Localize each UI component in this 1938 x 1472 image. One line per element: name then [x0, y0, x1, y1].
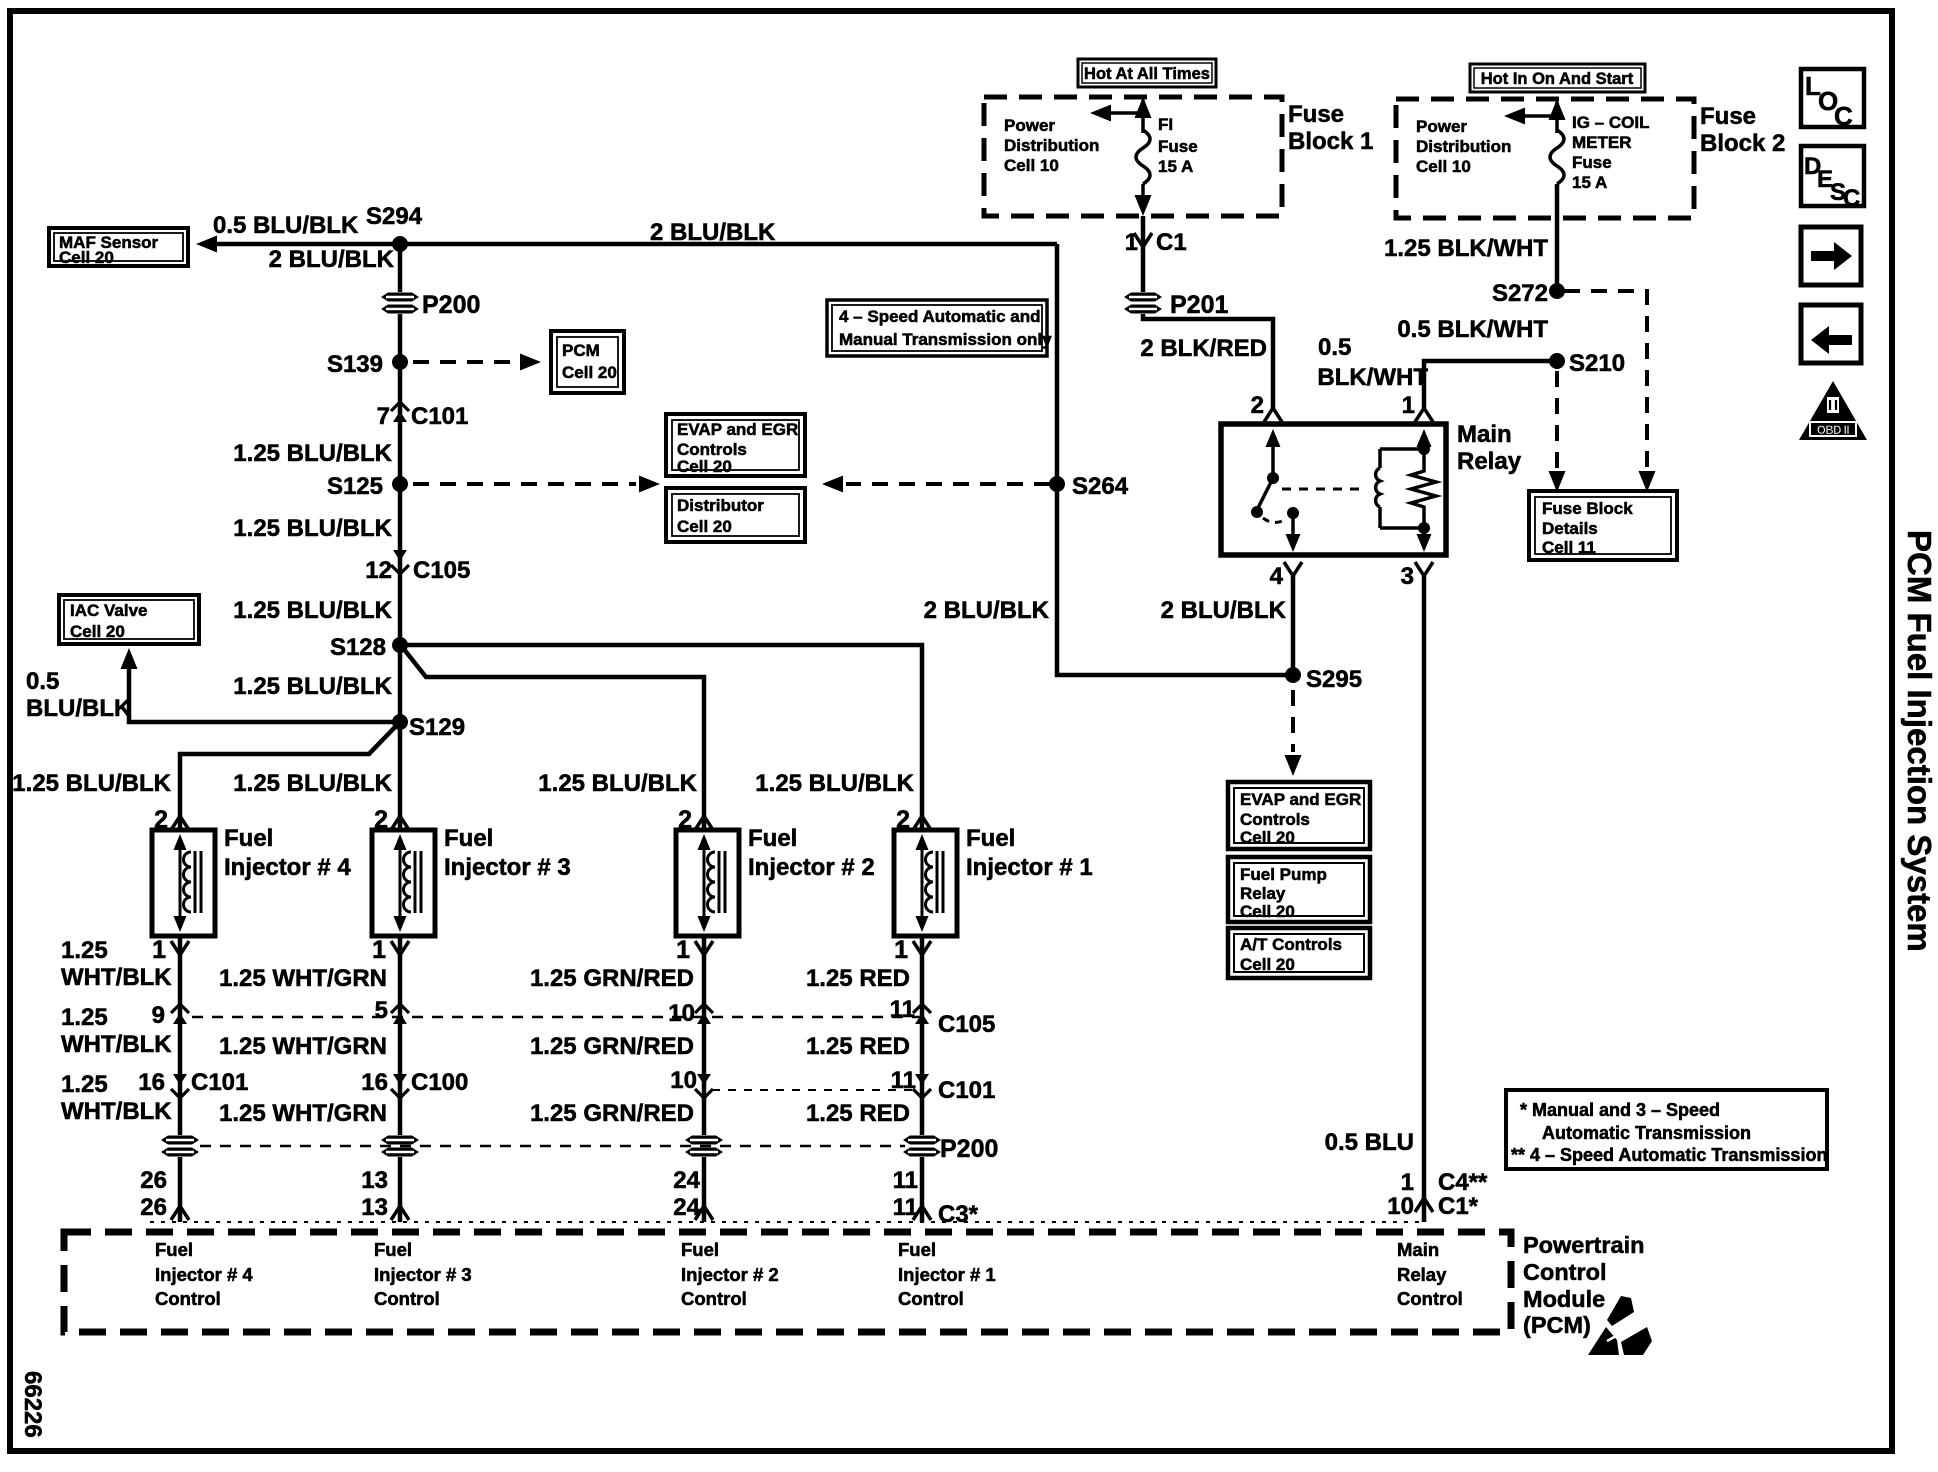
- svg-text:FI: FI: [1158, 115, 1173, 134]
- svg-text:0.5: 0.5: [1318, 334, 1351, 361]
- fuse block 2 name: [1700, 103, 1785, 157]
- form number 66226: [19, 1371, 46, 1438]
- fuse block 2 branch arrow to power distribution: [1504, 108, 1557, 125]
- svg-text:C4**: C4**: [1438, 1169, 1488, 1196]
- svg-text:1.25 BLU/BLK: 1.25 BLU/BLK: [233, 770, 392, 797]
- wire label 1.25 WHT/BLK row B: [61, 1004, 172, 1058]
- wire label 1.25 WHT/BLK row C: [61, 1071, 172, 1125]
- svg-text:1: 1: [676, 936, 690, 964]
- wire label 1.25 BLK/WHT: [1384, 235, 1548, 262]
- svg-text:Fuel: Fuel: [155, 1239, 193, 1260]
- svg-text:Fuel Pump: Fuel Pump: [1240, 865, 1327, 884]
- svg-text:1.25 BLU/BLK: 1.25 BLU/BLK: [233, 673, 392, 700]
- svg-text:Control: Control: [1397, 1288, 1463, 1309]
- svg-text:0.5: 0.5: [26, 668, 59, 695]
- wire S128 branch to fuel injector 2: [403, 648, 704, 830]
- fuel injector #3 pin 1: [372, 936, 409, 1022]
- svg-text:EVAP and EGR: EVAP and EGR: [677, 420, 798, 439]
- svg-text:Block 2: Block 2: [1700, 130, 1785, 157]
- svg-text:METER: METER: [1572, 133, 1632, 152]
- svg-text:26: 26: [140, 1194, 167, 1221]
- svg-text:C100: C100: [411, 1069, 468, 1096]
- wire label 0.5 BLK/WHT: [1397, 316, 1548, 343]
- MAF sensor cell 20 box: [49, 228, 188, 267]
- wire label 1.25 BLU/BLK injector 3 feed: [233, 770, 392, 797]
- wire S128 to fuel injector 1: [400, 645, 922, 830]
- fuse block 1 feed wire with up arrow: [1135, 97, 1152, 133]
- svg-text:2 BLK/RED: 2 BLK/RED: [1140, 335, 1267, 362]
- svg-text:16: 16: [361, 1069, 388, 1096]
- wire injector2 C105 to C101: [702, 1022, 707, 1071]
- svg-text:P200: P200: [940, 1135, 998, 1163]
- svg-text:WHT/BLK: WHT/BLK: [61, 1098, 172, 1125]
- svg-text:1.25 WHT/GRN: 1.25 WHT/GRN: [219, 1100, 387, 1127]
- wire S294 node down to S295: [1057, 244, 1293, 675]
- fuse F1 15A symbol: [1136, 130, 1150, 184]
- svg-text:Cell 20: Cell 20: [677, 457, 732, 476]
- svg-text:1: 1: [1402, 392, 1415, 419]
- splice S294: [366, 203, 423, 252]
- title PCM Fuel Injection System: [1901, 530, 1938, 952]
- fuel injector #4 pin 1: [152, 936, 189, 1022]
- main relay box: [1221, 424, 1446, 555]
- splice S129: [392, 714, 465, 741]
- fuse block 1 dashed box: [984, 97, 1282, 216]
- connector C101 pin 11 injector1: [891, 1067, 931, 1098]
- svg-text:1.25 RED: 1.25 RED: [806, 1100, 910, 1127]
- fuse block 1 label box Hot At All Times: [1078, 59, 1216, 87]
- wire label 2 BLU/BLK right: [1161, 597, 1287, 624]
- fuse F1 label: [1158, 115, 1198, 176]
- splice S128: [330, 634, 408, 661]
- svg-text:Cell 11: Cell 11: [1542, 538, 1596, 557]
- fuse block 1 branch arrow to power distribution: [1090, 105, 1143, 122]
- wire label 2 BLK/RED: [1140, 335, 1267, 362]
- connector C101 label right: [938, 1077, 995, 1104]
- PCM text main relay control: [1397, 1239, 1463, 1309]
- svg-text:Automatic Transmission: Automatic Transmission: [1542, 1123, 1751, 1143]
- wire S139 to connector C101 pin 7: [398, 362, 403, 424]
- svg-text:IAC Valve: IAC Valve: [70, 601, 148, 620]
- connector C3 dotted line: [150, 1221, 1424, 1223]
- svg-text:Fuel: Fuel: [748, 825, 797, 852]
- EVAP and EGR controls cell 20 box lower: [1228, 782, 1370, 849]
- connector C105 pin 9: [152, 1002, 189, 1029]
- main relay name: [1457, 421, 1522, 475]
- wire label 1.25 GRN/RED row A: [530, 965, 694, 992]
- svg-text:Injector # 4: Injector # 4: [224, 854, 351, 881]
- icon prev-page arrow: [1801, 305, 1861, 363]
- distributor cell 20 box: [666, 488, 805, 542]
- PCM text fuel injector 4 control: [155, 1239, 253, 1309]
- wire injector4 C105 to C101: [178, 1022, 183, 1071]
- fuel injector #2 pin 1: [676, 936, 713, 1022]
- inline connector P200 injector2: [685, 1136, 723, 1157]
- main relay pin 4: [1270, 562, 1302, 590]
- svg-text:1: 1: [1125, 229, 1138, 256]
- fuel injector #4 pin 2: [154, 806, 189, 834]
- wire label 0.5 BLK/WHT two lines: [1317, 334, 1428, 391]
- svg-text:Injector # 1: Injector # 1: [966, 854, 1093, 881]
- connector C3 label: [938, 1201, 979, 1228]
- connector C105 pin 10: [668, 1000, 713, 1027]
- svg-text:Fuel: Fuel: [681, 1239, 719, 1260]
- svg-text:26: 26: [140, 1167, 167, 1194]
- svg-text:(PCM): (PCM): [1523, 1312, 1591, 1338]
- dashed reference S295 to EVAP boxes: [1285, 690, 1302, 776]
- svg-text:1.25 RED: 1.25 RED: [806, 965, 910, 992]
- svg-text:66226: 66226: [19, 1371, 46, 1438]
- fuse block 2 label box Hot In On And Start: [1470, 64, 1645, 92]
- wire label 0.5 BLU/BLK two lines: [26, 668, 132, 722]
- svg-text:1.25 WHT/GRN: 1.25 WHT/GRN: [219, 1033, 387, 1060]
- svg-text:Block 1: Block 1: [1288, 128, 1373, 155]
- wire P201 to main relay pin 2: [1143, 314, 1273, 408]
- svg-text:Details: Details: [1542, 519, 1598, 538]
- svg-text:Relay: Relay: [1240, 884, 1286, 903]
- svg-text:2 BLU/BLK: 2 BLU/BLK: [269, 246, 395, 273]
- wire label 1.25 BLU/BLK b: [233, 515, 392, 542]
- connector C1 pin 1: [1125, 229, 1187, 256]
- svg-text:Fuse: Fuse: [1158, 137, 1198, 156]
- svg-text:PCM Fuel Injection System: PCM Fuel Injection System: [1901, 530, 1938, 952]
- wire C105 to S128: [398, 553, 403, 645]
- PCM name: [1523, 1232, 1644, 1338]
- svg-text:** 4 – Speed Automatic Transmi: ** 4 – Speed Automatic Transmission: [1511, 1145, 1827, 1165]
- svg-text:9: 9: [152, 1002, 165, 1029]
- connector C105 label: [938, 1011, 995, 1038]
- svg-text:WHT/BLK: WHT/BLK: [61, 1031, 172, 1058]
- svg-text:* Manual and 3 – Speed: * Manual and 3 – Speed: [1520, 1100, 1720, 1120]
- A/T controls cell 20 box: [1228, 928, 1370, 978]
- EVAP and EGR controls cell 20 box: [666, 414, 805, 476]
- wire label 1.25 GRN/RED row C: [530, 1100, 694, 1127]
- svg-text:Power: Power: [1416, 117, 1467, 136]
- PCM text fuel injector 1 control: [898, 1239, 996, 1309]
- svg-text:BLK/WHT: BLK/WHT: [1317, 364, 1428, 391]
- svg-text:2 BLU/BLK: 2 BLU/BLK: [650, 219, 776, 246]
- splice S264: [1049, 473, 1129, 500]
- svg-text:1.25 GRN/RED: 1.25 GRN/RED: [530, 1100, 694, 1127]
- svg-text:IG – COIL: IG – COIL: [1572, 113, 1649, 132]
- svg-text:15 A: 15 A: [1158, 157, 1193, 176]
- svg-text:1.25 BLU/BLK: 1.25 BLU/BLK: [233, 440, 392, 467]
- connector C101 dashed line: [712, 1089, 914, 1091]
- wire injector1 C105 to C101: [920, 1022, 925, 1071]
- wire label 1.25 RED row A: [806, 965, 910, 992]
- svg-text:12: 12: [365, 557, 392, 584]
- dashed reference S264 to EVAP-EGR/distributor: [822, 476, 1050, 493]
- fuse block 2 dashed box: [1396, 99, 1694, 218]
- svg-text:2: 2: [374, 806, 388, 834]
- svg-text:1.25: 1.25: [61, 937, 108, 964]
- wire label 1.25 WHT/BLK row A: [61, 937, 172, 991]
- svg-text:PCM: PCM: [562, 341, 600, 360]
- wire C1 to P201: [1141, 247, 1146, 292]
- icon OBD II triangle: [1799, 381, 1867, 440]
- svg-text:Module: Module: [1523, 1286, 1605, 1312]
- svg-text:Cell 20: Cell 20: [1240, 955, 1295, 974]
- svg-text:1.25 BLU/BLK: 1.25 BLU/BLK: [538, 770, 697, 797]
- wire label 1.25 BLU/BLK a: [233, 440, 392, 467]
- main relay internal node bottom: [1417, 522, 1432, 552]
- svg-text:S295: S295: [1306, 666, 1362, 693]
- svg-text:Fuse: Fuse: [1572, 153, 1612, 172]
- wire label 1.25 BLU/BLK injector 1 feed: [755, 770, 914, 797]
- wire injector3 P200 to PCM: [398, 1157, 403, 1222]
- inline connector P200 injector4: [161, 1136, 199, 1157]
- svg-text:1.25 BLU/BLK: 1.25 BLU/BLK: [12, 770, 171, 797]
- PCM cell 20 box: [551, 331, 624, 393]
- svg-text:Injector # 2: Injector # 2: [748, 854, 875, 881]
- connector C105 pin 12: [365, 550, 470, 584]
- svg-text:WHT/BLK: WHT/BLK: [61, 964, 172, 991]
- connector C105 dashed line: [192, 1016, 928, 1019]
- wire label 1.25 WHT/GRN row A: [219, 965, 387, 992]
- wire S125 to connector C105 pin 12: [398, 484, 403, 553]
- connector C105 pin 11: [890, 996, 931, 1024]
- wire label 1.25 BLU/BLK injector 2 feed: [538, 770, 697, 797]
- wire label 2 BLU/BLK left: [924, 597, 1050, 624]
- svg-text:11: 11: [891, 1067, 916, 1094]
- connector C101 pin 10 injector2: [670, 1067, 713, 1098]
- svg-text:2: 2: [1251, 392, 1264, 419]
- svg-text:4: 4: [1270, 563, 1284, 590]
- svg-text:13: 13: [361, 1167, 388, 1194]
- svg-text:Cell 20: Cell 20: [677, 517, 732, 536]
- svg-text:Injector # 1: Injector # 1: [898, 1264, 996, 1285]
- wire label 2 BLU/BLK below S294: [269, 246, 395, 273]
- splice S295: [1285, 666, 1362, 693]
- svg-text:Fuel: Fuel: [374, 1239, 412, 1260]
- svg-text:Injector # 2: Injector # 2: [681, 1264, 779, 1285]
- svg-text:C3*: C3*: [938, 1201, 979, 1228]
- wire main relay pin 4 to S295: [1291, 576, 1296, 675]
- fuel injector #4 label: [224, 825, 351, 881]
- wire injector1 C101 to P200: [920, 1071, 925, 1135]
- connector C100 pin 16: [361, 1069, 468, 1098]
- svg-text:C: C: [1834, 101, 1853, 131]
- svg-text:4 – Speed Automatic and: 4 – Speed Automatic and: [839, 307, 1041, 326]
- dashed reference S139 to PCM: [413, 354, 541, 371]
- svg-text:C105: C105: [938, 1011, 995, 1038]
- fuel injector #4: [152, 830, 215, 936]
- svg-text:2: 2: [678, 806, 692, 834]
- fuse IG-COIL METER 15A symbol: [1550, 130, 1564, 184]
- svg-text:C101: C101: [938, 1077, 995, 1104]
- wire injector4 C101 to P200: [178, 1071, 183, 1135]
- fuse block details cell 11 box: [1529, 491, 1677, 560]
- svg-text:3: 3: [1401, 563, 1414, 590]
- inline connector P200 top: [381, 291, 480, 319]
- svg-text:C101: C101: [411, 403, 468, 430]
- wire label 1.25 WHT/GRN row B: [219, 1033, 387, 1060]
- svg-text:Control: Control: [374, 1288, 440, 1309]
- main relay switch dashed throw: [1263, 518, 1287, 523]
- main relay switch dashed link to coil: [1282, 488, 1362, 491]
- wire S294 to P200: [398, 244, 403, 292]
- svg-text:1.25 GRN/RED: 1.25 GRN/RED: [530, 965, 694, 992]
- svg-text:10: 10: [670, 1067, 697, 1094]
- wire injector1 P200 to PCM: [920, 1157, 925, 1222]
- main relay pin 2: [1251, 392, 1282, 422]
- PCM pin 13 injector3: [361, 1167, 388, 1221]
- svg-text:Powertrain: Powertrain: [1523, 1232, 1644, 1258]
- fuel injector #3: [372, 830, 435, 936]
- svg-text:S139: S139: [327, 351, 383, 378]
- svg-text:0.5 BLU/BLK: 0.5 BLU/BLK: [213, 212, 359, 239]
- wire main relay pin 3 to PCM C1: [1422, 576, 1427, 1222]
- ESD sensitive symbol: [1588, 1296, 1652, 1355]
- fuse block 1 Power Distribution Cell 10 text: [1004, 116, 1099, 175]
- inline connector P201: [1124, 291, 1228, 319]
- wire label 1.25 BLU/BLK injector 4 feed: [12, 770, 171, 797]
- splice S272: [1492, 280, 1565, 307]
- main relay pin 1: [1402, 392, 1433, 422]
- svg-text:1: 1: [372, 936, 386, 964]
- connector C4 pin 1 label: [1401, 1169, 1488, 1196]
- svg-text:1.25 RED: 1.25 RED: [806, 1033, 910, 1060]
- svg-text:C: C: [1843, 185, 1860, 212]
- dashed reference S210 to fuse block details: [1549, 371, 1566, 492]
- svg-text:S125: S125: [327, 473, 383, 500]
- svg-text:Distribution: Distribution: [1004, 136, 1099, 155]
- svg-text:24: 24: [673, 1167, 700, 1194]
- 4-speed automatic note box: [827, 300, 1052, 356]
- connector C1 pin 10: [1387, 1193, 1478, 1220]
- wire injector4 P200 to PCM: [178, 1157, 183, 1222]
- fuel injector #3 pin 2: [374, 806, 409, 834]
- fuel injector #1 pin 2: [896, 806, 931, 834]
- svg-text:Hot At All Times: Hot At All Times: [1084, 65, 1210, 83]
- connector C3 pin chevrons: [171, 1206, 931, 1220]
- wire P200 to S139: [398, 314, 403, 362]
- svg-text:Distribution: Distribution: [1416, 137, 1511, 156]
- svg-text:S210: S210: [1569, 350, 1625, 377]
- svg-text:2: 2: [896, 806, 910, 834]
- wire label 1.25 WHT/GRN row C: [219, 1100, 387, 1127]
- svg-text:Control: Control: [681, 1288, 747, 1309]
- svg-text:Main: Main: [1457, 421, 1512, 448]
- svg-text:1.25 BLU/BLK: 1.25 BLU/BLK: [755, 770, 914, 797]
- svg-text:Injector # 3: Injector # 3: [444, 854, 571, 881]
- svg-text:C105: C105: [413, 557, 470, 584]
- svg-text:Cell 10: Cell 10: [1416, 157, 1471, 176]
- PCM pin 26 injector4: [140, 1167, 167, 1221]
- svg-text:Cell 10: Cell 10: [1004, 156, 1059, 175]
- svg-text:A/T Controls: A/T Controls: [1240, 935, 1342, 954]
- main relay coil: [1376, 449, 1424, 528]
- PCM text fuel injector 3 control: [374, 1239, 472, 1309]
- inline connector P200 dashed line: [200, 1145, 905, 1148]
- svg-text:Fuse: Fuse: [1288, 101, 1344, 128]
- svg-text:P200: P200: [422, 291, 480, 319]
- svg-text:Control: Control: [155, 1288, 221, 1309]
- main relay switch: [1251, 429, 1281, 518]
- fuel injector #1 label: [966, 825, 1093, 881]
- wire label 0.5 BLU: [1325, 1129, 1414, 1156]
- svg-text:15 A: 15 A: [1572, 173, 1607, 192]
- svg-text:S294: S294: [366, 203, 423, 230]
- PCM text fuel injector 2 control: [681, 1239, 779, 1309]
- wire S210 to main relay pin 1: [1424, 361, 1557, 408]
- svg-text:Cell 20: Cell 20: [59, 248, 114, 267]
- wire label 2 BLU/BLK top: [650, 219, 776, 246]
- wire label 1.25 GRN/RED row B: [530, 1033, 694, 1060]
- svg-text:0.5 BLU: 0.5 BLU: [1325, 1129, 1414, 1156]
- svg-text:Power: Power: [1004, 116, 1055, 135]
- wire S128 to S129: [398, 645, 403, 722]
- wire S129 branch to fuel injector 4: [180, 725, 397, 830]
- fuel injector #3 label: [444, 825, 571, 881]
- wire injector3 C105 to C100: [398, 1022, 403, 1071]
- wire injector3 C100 to P200: [398, 1071, 403, 1135]
- svg-text:S128: S128: [330, 634, 386, 661]
- svg-text:Main: Main: [1397, 1239, 1439, 1260]
- wire label 1.25 BLU/BLK d: [233, 673, 392, 700]
- svg-text:1: 1: [894, 936, 908, 964]
- svg-text:Controls: Controls: [1240, 810, 1310, 829]
- svg-text:Control: Control: [898, 1288, 964, 1309]
- wire injector2 P200 to PCM: [702, 1157, 707, 1222]
- IAC valve cell 20 box: [59, 595, 199, 644]
- splice S139: [327, 351, 408, 378]
- fuel injector #2: [676, 830, 739, 936]
- svg-text:S272: S272: [1492, 280, 1548, 307]
- connector C101 pin 7: [377, 402, 469, 430]
- svg-text:1.25 BLU/BLK: 1.25 BLU/BLK: [233, 597, 392, 624]
- svg-text:2 BLU/BLK: 2 BLU/BLK: [1161, 597, 1287, 624]
- svg-text:P201: P201: [1170, 291, 1228, 319]
- dashed reference S125 to EVAP-EGR controls: [413, 476, 660, 493]
- PCM pin 11 injector1: [893, 1167, 918, 1221]
- wire C101 to S125: [398, 424, 403, 484]
- svg-text:C101: C101: [191, 1069, 248, 1096]
- dashed reference S272 to fuse block details: [1564, 291, 1656, 492]
- icon LOC: [1801, 69, 1864, 131]
- svg-text:C1: C1: [1156, 229, 1187, 256]
- wire label 1.25 BLU/BLK c: [233, 597, 392, 624]
- svg-text:1.25: 1.25: [61, 1004, 108, 1031]
- svg-text:Fuel: Fuel: [224, 825, 273, 852]
- svg-text:Cell 20: Cell 20: [1240, 828, 1295, 847]
- svg-text:Injector # 4: Injector # 4: [155, 1264, 253, 1285]
- svg-text:10: 10: [668, 1000, 695, 1027]
- svg-text:1.25 BLK/WHT: 1.25 BLK/WHT: [1384, 235, 1548, 262]
- wire S129 to IAC valve with arrow: [121, 648, 401, 722]
- wire label 1.25 RED row B: [806, 1033, 910, 1060]
- svg-text:16: 16: [138, 1069, 165, 1096]
- wire label 1.25 RED row C: [806, 1100, 910, 1127]
- svg-text:Fuel: Fuel: [898, 1239, 936, 1260]
- splice S210: [1549, 350, 1625, 377]
- wire label 0.5 BLU/BLK: [213, 212, 359, 239]
- svg-text:5: 5: [375, 997, 388, 1024]
- svg-text:0.5 BLK/WHT: 0.5 BLK/WHT: [1397, 316, 1548, 343]
- svg-text:1.25 GRN/RED: 1.25 GRN/RED: [530, 1033, 694, 1060]
- wire injector2 C101 to P200: [702, 1071, 707, 1135]
- svg-text:Manual Transmission only: Manual Transmission only: [839, 330, 1052, 349]
- PCM pin 24 injector2: [673, 1167, 700, 1221]
- inline connector P200 injector1: [903, 1136, 941, 1157]
- wire S294 to MAF sensor with arrow: [196, 236, 400, 253]
- svg-text:Fuse Block: Fuse Block: [1542, 499, 1633, 518]
- fuel injector #2 pin 2: [678, 806, 713, 834]
- svg-text:Cell 20: Cell 20: [1240, 902, 1295, 921]
- svg-text:2 BLU/BLK: 2 BLU/BLK: [924, 597, 1050, 624]
- svg-text:Relay: Relay: [1397, 1264, 1447, 1285]
- svg-text:OBD II: OBD II: [1817, 425, 1849, 437]
